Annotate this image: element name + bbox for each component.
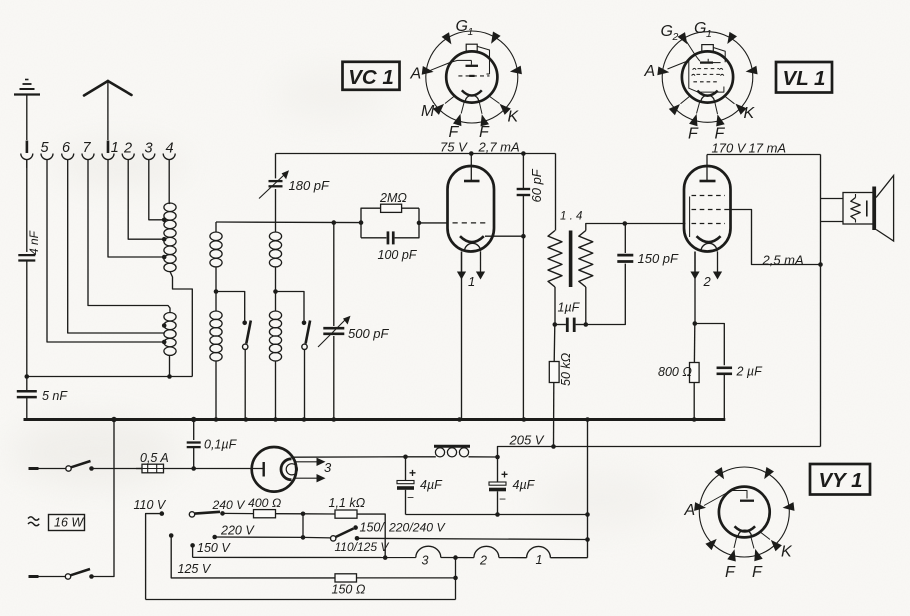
mains plug prong upper: [29, 467, 39, 470]
tube VC1 cathode tap wire: [485, 234, 526, 239]
wire group1 switch branch: [216, 292, 245, 322]
svg-text:5 nF: 5 nF: [42, 389, 68, 403]
svg-text:F: F: [479, 124, 490, 141]
svg-text:110/125 V: 110/125 V: [335, 540, 390, 554]
pinout VL1 fan spokes: [681, 96, 735, 114]
svg-text:−: −: [499, 492, 506, 506]
wire switch to chassis: [92, 417, 117, 577]
label 4uF first: [420, 478, 443, 492]
wire group2 vertical (from top line through 180pF): [275, 154, 277, 233]
svg-text:16 W: 16 W: [54, 516, 84, 530]
ground symbol: [14, 80, 40, 141]
svg-text:VL 1: VL 1: [783, 67, 826, 90]
label 110/125V: [335, 540, 390, 554]
rectifier VY1 heater pin arrows: [294, 458, 326, 483]
pinout VC1 cathode: [462, 90, 482, 95]
wire filter negative rail: [406, 512, 590, 517]
wire prong to switch lower: [39, 576, 66, 578]
pinout VY1 heater dome: [738, 530, 752, 537]
speaker cone: [876, 176, 894, 242]
wire VL1 screen to speaker node: [725, 210, 821, 265]
node VC1 anode: [469, 151, 474, 156]
IF transformer secondary: [579, 231, 593, 288]
wire group2 to bus: [273, 361, 278, 422]
resistor 150Ohm: [335, 574, 456, 582]
lower coil taps: [162, 323, 167, 344]
pinout VL1 anode box: [668, 61, 724, 93]
wire fuse line to rectifier: [194, 468, 264, 470]
pinout VY1 outer circle: [699, 467, 789, 557]
plug mark on antenna lead: [107, 141, 110, 154]
antenna: [84, 81, 132, 140]
svg-text:150 pF: 150 pF: [638, 251, 680, 266]
pinout VL1 G2 spoke: [687, 42, 700, 62]
wire IF secondary bottom: [585, 287, 587, 325]
label 4uF second: [513, 478, 536, 492]
svg-text:2: 2: [479, 554, 487, 568]
node 60pF top: [521, 151, 526, 156]
capacitor 4uF second (electrolytic): [489, 457, 508, 515]
wire switch to fuse: [92, 468, 143, 470]
pinout VC1 top cap: [466, 44, 489, 74]
pinout VY1 pin arrows: [694, 467, 794, 562]
svg-text:5: 5: [41, 140, 50, 156]
svg-text:50 kΩ: 50 kΩ: [559, 352, 573, 386]
label heater 1: [536, 553, 543, 567]
node fuse line / 0.1uF: [191, 466, 196, 471]
label 150Ohm: [332, 583, 366, 597]
label 220V: [220, 524, 255, 538]
terminal sockets (aerial/earth strip): [21, 154, 175, 169]
node grid RC left: [359, 220, 364, 225]
label 5nF: [42, 389, 68, 403]
label 1,1kOhm: [329, 496, 366, 510]
capacitor 150pF: [586, 224, 634, 325]
switch mains lower: [65, 569, 93, 579]
svg-text:220 V: 220 V: [220, 524, 255, 538]
label 100pF: [378, 248, 418, 262]
antenna coil lower winding: [164, 313, 176, 356]
tap 220V: [212, 535, 303, 540]
svg-text:K: K: [508, 109, 520, 126]
wire terminal 6 to coil tap: [68, 168, 164, 333]
wire tuned-grid line: [216, 221, 361, 224]
label 1.4: [560, 211, 582, 223]
pinout VC1 pin arrows: [422, 32, 522, 127]
svg-text:1: 1: [111, 140, 119, 156]
wire anode supply line VC1: [276, 153, 556, 155]
svg-text:2MΩ: 2MΩ: [379, 191, 407, 205]
pinout VL1 top cap: [702, 45, 725, 63]
wire lower coil bottom down: [169, 356, 171, 377]
svg-text:100 pF: 100 pF: [378, 248, 418, 262]
wire 205V HT line: [498, 447, 821, 458]
pinout VY1 labels: [684, 502, 794, 581]
switch mains upper: [66, 461, 94, 471]
node heater mid tap: [453, 555, 458, 560]
label 150V: [197, 541, 231, 555]
label 17mA: [749, 141, 787, 156]
svg-text:A: A: [684, 502, 696, 519]
node earth link: [25, 374, 30, 379]
coil group1 upper: [210, 232, 222, 267]
wire anode supply line VL1: [707, 154, 821, 156]
label heater 3: [422, 554, 429, 568]
svg-text:1: 1: [468, 274, 475, 289]
svg-text:2: 2: [672, 31, 679, 43]
svg-text:800 Ω: 800 Ω: [658, 365, 692, 379]
node 500pF top: [332, 220, 337, 225]
pinout VY1 anode: [704, 491, 754, 506]
svg-text:4µF: 4µF: [420, 478, 443, 492]
wire terminal 4 to upper coil top: [168, 168, 170, 204]
pinout VL1 grid rows: [692, 68, 724, 81]
svg-text:A: A: [644, 63, 656, 80]
capacitor 1uF: [555, 318, 586, 332]
wire upper coil bottom to junction: [170, 272, 192, 377]
svg-text:F: F: [752, 564, 763, 581]
tube VL1 grids (dashed): [690, 196, 725, 238]
svg-text:6: 6: [62, 140, 71, 156]
svg-text:2: 2: [123, 140, 132, 156]
wire terminal earth down: [26, 160, 28, 252]
svg-text:G: G: [661, 23, 673, 40]
fuse 0,5A: [136, 464, 194, 473]
wire group2 switch branch: [276, 292, 305, 322]
svg-text:K: K: [744, 105, 756, 122]
svg-text:+: +: [409, 466, 416, 480]
IF transformer core: [569, 231, 573, 288]
svg-text:2,7 mA: 2,7 mA: [478, 140, 520, 155]
svg-text:1: 1: [468, 26, 474, 38]
wire group2 mid: [275, 268, 277, 312]
label 50kOhm: [559, 352, 573, 386]
wire speaker vertical: [820, 155, 822, 447]
pinout VL1 pin arrows: [657, 32, 757, 127]
node group1 junction: [214, 289, 219, 294]
resistor 50kOhm: [549, 325, 559, 447]
wire arm to 400R: [223, 512, 254, 514]
tube VC1 anode: [464, 154, 480, 182]
capacitor 180pF variable: [259, 170, 289, 198]
wire group1 to bus: [214, 361, 219, 422]
svg-text:400 Ω: 400 Ω: [248, 496, 281, 510]
svg-text:G: G: [694, 20, 706, 37]
tap 125V: [169, 533, 335, 578]
terminal labels 5 6 7 1 2 3 4: [41, 140, 174, 156]
pinout VC1 grid bar: [458, 60, 479, 65]
svg-text:M: M: [421, 103, 435, 120]
svg-text:500 pF: 500 pF: [348, 326, 390, 341]
svg-text:7: 7: [83, 140, 92, 156]
label pin 3: [324, 460, 332, 475]
pinout VC1 labels: [410, 18, 520, 141]
node 150pF top: [623, 221, 628, 226]
wire RC to VC1 grid: [419, 222, 448, 224]
svg-text:4 nF: 4 nF: [27, 230, 41, 255]
selector switch 150/220: [331, 525, 588, 541]
label 2uF: [736, 365, 764, 379]
label pin 1: [468, 274, 475, 289]
tube label box VC1: [343, 62, 400, 90]
svg-text:−: −: [407, 491, 414, 505]
svg-text:205 V: 205 V: [509, 433, 545, 448]
switch S2 wave-band: [302, 321, 310, 422]
svg-text:180 pF: 180 pF: [289, 178, 331, 193]
svg-text:0,1µF: 0,1µF: [204, 438, 238, 452]
label 170V: [712, 141, 747, 156]
tube label box VL1: [776, 62, 832, 93]
pinout VL1 outer circle: [662, 32, 753, 123]
pinout VL1 heater dome: [701, 95, 715, 102]
node group2 junction: [273, 289, 278, 294]
label 1uF: [558, 301, 581, 315]
svg-text:1: 1: [706, 28, 712, 40]
svg-text:3: 3: [145, 140, 153, 156]
rectifier VY1 cathode: [281, 459, 297, 480]
svg-text:VC 1: VC 1: [348, 66, 394, 89]
pinout VC1 heater dome: [465, 95, 479, 102]
svg-text:110 V: 110 V: [134, 498, 167, 512]
node 220V line junction: [301, 535, 331, 540]
svg-text:4µF: 4µF: [513, 478, 536, 492]
resistor 1,1kOhm: [303, 510, 385, 558]
pinout VC1 anode spoke: [431, 60, 458, 70]
wire right riser: [585, 417, 590, 558]
resistor 800Ohm: [690, 324, 700, 422]
wire top line into IF primary: [555, 154, 557, 231]
label approx 16W: [28, 515, 85, 531]
svg-text:4: 4: [166, 140, 174, 156]
pinout VL1 cathode: [697, 91, 717, 96]
node choke right: [495, 455, 500, 460]
wire group1 vertical top: [215, 222, 217, 232]
pinout VC1 grid dashes: [458, 75, 489, 77]
node speaker branch: [818, 262, 823, 267]
wire transformer bottom lead: [821, 221, 844, 223]
selector arm 240V: [189, 511, 225, 517]
label 0,1uF: [204, 438, 238, 452]
svg-text:2: 2: [703, 274, 712, 289]
svg-text:A: A: [410, 66, 422, 83]
rectifier VY1 anode: [263, 462, 265, 477]
tube VC1 heater dome: [465, 243, 481, 251]
pinout VC1 outer circle: [426, 31, 518, 123]
switch S1 wave-band: [242, 321, 250, 422]
resistor 2MOhm / capacitor 100pF parallel: [361, 204, 419, 244]
tube VL1 heater pins: [690, 252, 722, 323]
capacitor 5nF: [17, 377, 37, 420]
tube VC1 envelope: [448, 166, 495, 252]
wire terminal 3 to coil tap: [149, 168, 164, 220]
node cathode junction VL1: [693, 321, 698, 326]
svg-text:75 V: 75 V: [440, 140, 468, 155]
svg-text:150/: 150/: [360, 521, 386, 535]
tap 110V: [146, 511, 165, 599]
output transformer box: [843, 193, 875, 225]
pinout VL1 inner circle: [682, 51, 733, 102]
capacitor 4uF first (electrolytic): [397, 457, 416, 515]
wire 110V return: [146, 599, 456, 601]
node 400R/1k1 junction: [301, 512, 306, 538]
tube VL1 anode: [700, 155, 716, 182]
node grid RC right: [417, 221, 422, 226]
label 240V: [212, 498, 247, 512]
tube VC1 grid (dashed): [453, 222, 490, 224]
svg-text:150 V: 150 V: [197, 541, 231, 555]
wire prong to switch: [39, 468, 67, 470]
label heater 2: [479, 554, 487, 568]
svg-text:F: F: [449, 124, 460, 141]
pinout VY1 fan spokes: [734, 532, 770, 549]
svg-text:0,5 A: 0,5 A: [140, 451, 169, 465]
node 50k to HT: [551, 444, 556, 449]
coil group2 lower: [269, 311, 281, 361]
capacitor 2uF: [695, 324, 732, 420]
svg-text:F: F: [688, 126, 699, 143]
pinout VY1 cathode: [735, 526, 756, 531]
pinout VC1 inner circle: [446, 51, 497, 102]
wire earth link horizontal: [27, 376, 193, 378]
svg-text:170 V: 170 V: [712, 141, 747, 156]
transformer core line: [866, 201, 868, 217]
filter choke: [406, 446, 498, 457]
IF transformer primary: [548, 231, 562, 288]
label 205V: [509, 433, 545, 448]
svg-text:2 µF: 2 µF: [736, 365, 764, 379]
tube label box VY1: [810, 464, 870, 495]
wire transformer top lead: [821, 198, 844, 200]
capacitor 60pF: [517, 154, 531, 422]
tube VL1 cathode: [697, 236, 721, 242]
wire IF secondary top: [586, 224, 686, 231]
antenna coil upper winding: [164, 203, 176, 272]
tap 150V: [190, 543, 195, 557]
node choke left: [403, 455, 408, 460]
upper coil taps: [162, 218, 167, 260]
label 2MOhm: [379, 191, 407, 205]
pinout VY1 inner circle: [719, 487, 770, 538]
wire terminal 5 to coil tap: [47, 168, 164, 342]
capacitor 4nF: [18, 160, 35, 377]
wire terminal 1 to coil tap: [108, 168, 164, 257]
svg-text:VY 1: VY 1: [818, 469, 862, 492]
svg-text:60 pF: 60 pF: [529, 168, 544, 202]
svg-text:2,5 mA: 2,5 mA: [762, 253, 804, 268]
node lower coil / earth rail: [167, 374, 172, 379]
rectifier VY1 output wire: [293, 456, 406, 458]
coil group2 upper: [269, 232, 281, 267]
node IF secondary bottom: [584, 322, 589, 327]
svg-text:F: F: [725, 564, 736, 581]
label 150/: [360, 521, 386, 535]
capacitor 500pF variable: [318, 223, 351, 422]
svg-text:240 V: 240 V: [212, 498, 247, 512]
wire group1 mid: [215, 268, 217, 312]
node IF primary bottom: [553, 322, 558, 327]
label 150pF: [638, 251, 680, 266]
wire IF primary bottom: [554, 287, 556, 325]
label 500pF: [348, 326, 390, 341]
wire terminal 2 to coil tap: [128, 168, 164, 239]
label 220/240V: [388, 521, 446, 535]
svg-text:220/240 V: 220/240 V: [388, 521, 446, 535]
svg-text:G: G: [456, 18, 468, 35]
earth bus (chassis rail): [24, 418, 726, 421]
heater chain line: [193, 546, 588, 558]
label 110V: [134, 498, 167, 512]
node heater/1k1 tap: [383, 555, 388, 560]
capacitor 0,1uF: [187, 417, 201, 469]
tube VC1 heater pins: [457, 252, 485, 422]
plug mark on ground lead: [26, 141, 29, 154]
svg-text:+: +: [501, 468, 508, 482]
pinout VL1 labels: [644, 20, 756, 143]
label pin 2: [703, 274, 712, 289]
transformer winding zigzag: [851, 194, 860, 223]
label 0,5A: [140, 451, 169, 465]
rectifier VY1 envelope: [252, 447, 297, 492]
tube VL1 envelope: [684, 166, 731, 252]
svg-text:1µF: 1µF: [558, 301, 581, 315]
svg-text:F: F: [715, 126, 726, 143]
svg-text:17 mA: 17 mA: [749, 141, 787, 156]
label 180pF: [289, 178, 331, 193]
label 800Ohm: [658, 365, 692, 379]
svg-text:3: 3: [422, 554, 429, 568]
pinout VC1 fan spokes: [445, 96, 500, 114]
tube VL1 heater dome: [701, 243, 717, 251]
svg-text:1: 1: [536, 553, 543, 567]
pinout VL1 grid bar: [700, 59, 721, 63]
label 60pF: [529, 168, 544, 202]
coil group1 lower: [210, 311, 222, 361]
label 2,7mA: [478, 140, 520, 155]
svg-text:1 . 4: 1 . 4: [560, 211, 582, 223]
tube VC1 cathode: [460, 236, 484, 242]
label 2,5mA: [762, 253, 804, 268]
label 125V: [178, 562, 212, 576]
wire mid tap down: [453, 558, 458, 600]
speaker magnet bar: [872, 187, 876, 231]
mains plug prong lower: [29, 575, 39, 578]
label 4nF: [27, 230, 41, 255]
svg-text:150 Ω: 150 Ω: [332, 583, 366, 597]
svg-text:125 V: 125 V: [178, 562, 212, 576]
svg-text:1,1 kΩ: 1,1 kΩ: [329, 496, 366, 510]
label 400Ohm: [248, 496, 281, 510]
resistor 400Ohm: [254, 510, 304, 518]
svg-text:K: K: [781, 544, 793, 561]
label 75V: [440, 140, 468, 155]
svg-text:3: 3: [324, 460, 332, 475]
wire terminal 7 to lower coil top: [88, 168, 170, 313]
